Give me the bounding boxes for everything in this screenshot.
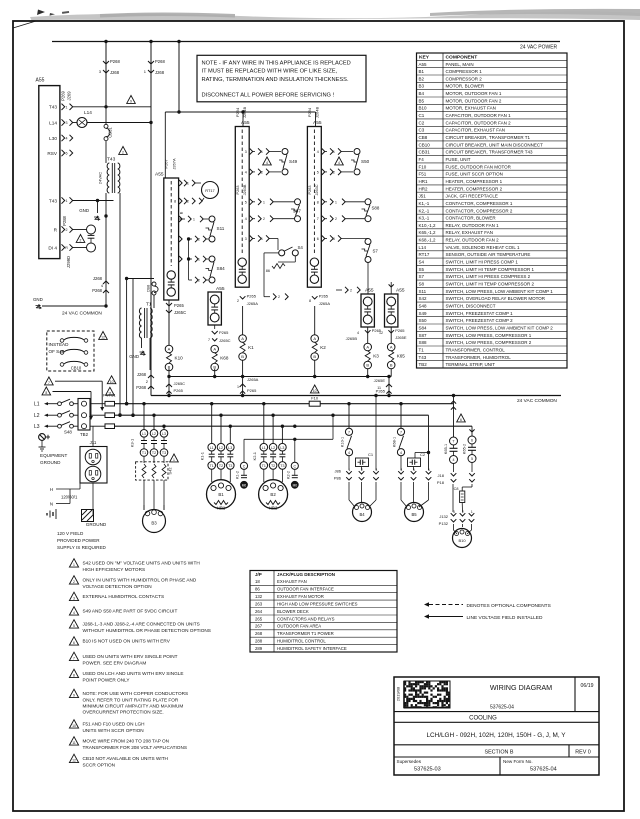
svg-text:GROUND: GROUND (86, 522, 107, 527)
relay contacts K65-1 (453, 396, 455, 438)
svg-text:L1: L1 (34, 402, 40, 408)
svg-text:MOVE WIRE FROM 240 TO 208 TAP: MOVE WIRE FROM 240 TO 208 TAP ON (83, 739, 170, 744)
svg-text:A: A (313, 336, 316, 341)
svg-text:2: 2 (122, 151, 124, 155)
svg-text:N: N (50, 502, 53, 507)
svg-text:TRANSFORMER, CONTROL: TRANSFORMER, CONTROL (446, 347, 506, 352)
svg-text:S88: S88 (419, 340, 428, 345)
svg-text:8: 8 (317, 200, 319, 204)
svg-text:K68-1: K68-1 (393, 437, 397, 447)
svg-text:J265A: J265A (247, 301, 259, 306)
contactor coil K3 (367, 327, 369, 343)
svg-text:4: 4 (357, 331, 359, 335)
svg-text:3: 3 (73, 597, 75, 601)
svg-text:S49: S49 (419, 311, 428, 316)
svg-text:24 VAC COMMON: 24 VAC COMMON (62, 311, 102, 317)
svg-text:POWER. SEE ERV DIAGRAM: POWER. SEE ERV DIAGRAM (83, 660, 147, 665)
switch S84 low ambient 2 (195, 256, 198, 262)
svg-text:RSV: RSV (47, 151, 58, 156)
panel A55 main box (39, 86, 60, 259)
svg-text:CIRCUIT BREAKER, TRANSFORMER T: CIRCUIT BREAKER, TRANSFORMER T1 (446, 135, 531, 140)
svg-text:HR2: HR2 (269, 506, 278, 511)
svg-text:6: 6 (73, 641, 75, 645)
svg-text:4: 4 (245, 170, 247, 174)
svg-text:RELAY, OUTDOOR FAN 2: RELAY, OUTDOOR FAN 2 (446, 238, 500, 243)
svg-text:S88: S88 (372, 206, 380, 211)
svg-text:P267: P267 (163, 159, 168, 169)
switch S49 freezestat (258, 148, 261, 154)
node 24vac common stub (104, 304, 107, 307)
svg-text:K2: K2 (320, 345, 326, 350)
panel A55 K65 interface box (385, 294, 398, 327)
svg-text:A55: A55 (419, 62, 428, 67)
svg-text:J265C: J265C (219, 338, 231, 343)
wire L2 end drop to J86 pin 6 (428, 415, 430, 470)
svg-text:L3: L3 (162, 432, 166, 436)
warning triangle 10 at fuses (107, 376, 116, 384)
svg-text:MINIMUM CIRCUIT AMPACITY AND M: MINIMUM CIRCUIT AMPACITY AND MAXIMUM (83, 703, 184, 708)
svg-text:T2: T2 (152, 451, 156, 455)
svg-text:B2: B2 (270, 492, 276, 497)
svg-text:K65: K65 (397, 354, 406, 359)
svg-text:5: 5 (413, 468, 415, 472)
svg-text:L1: L1 (262, 446, 266, 450)
svg-text:S48: S48 (64, 430, 72, 435)
svg-text:L14: L14 (419, 245, 427, 250)
svg-text:K65-1: K65-1 (444, 444, 448, 454)
warning triangle 4 right (335, 157, 344, 165)
date cell 06/19 (574, 677, 576, 712)
heater HR1 (214, 501, 228, 505)
switch CB10 instead-of-S48 box (47, 331, 94, 371)
svg-text:EXHAUST FAN MOTOR: EXHAUST FAN MOTOR (277, 594, 324, 599)
svg-text:F51 AND F10 USED ON LGH: F51 AND F10 USED ON LGH (83, 722, 145, 727)
svg-text:86: 86 (255, 587, 260, 592)
svg-text:7: 7 (73, 657, 75, 661)
switch S48 pole L1 (58, 402, 62, 406)
svg-text:MOTOR, OUTDOOR FAN 1: MOTOR, OUTDOOR FAN 1 (446, 91, 502, 96)
svg-text:J268: J268 (110, 70, 120, 75)
relay contacts K10-1 (348, 404, 350, 428)
wire bus2 drop to strip2 (315, 112, 317, 127)
motor B10 exhaust fan (453, 524, 455, 530)
note triangle 1 (69, 559, 78, 567)
svg-text:B: B (390, 363, 393, 368)
svg-text:T1: T1 (146, 302, 152, 308)
svg-text:P86: P86 (334, 476, 342, 481)
switch S7 hi press (330, 235, 333, 241)
relay coil K68 (214, 325, 216, 329)
overload S42 (136, 462, 168, 480)
svg-text:K68,-1,2: K68,-1,2 (419, 238, 437, 243)
warning triangle 9 (127, 96, 136, 104)
cooling row (394, 711, 599, 713)
switch S88 low press (330, 199, 333, 205)
svg-text:L3: L3 (280, 446, 284, 450)
ground hatched pad (82, 510, 94, 522)
panel A55 K3 interface box (361, 294, 374, 327)
svg-text:B2: B2 (419, 76, 425, 81)
svg-text:L14: L14 (49, 120, 57, 125)
svg-text:10: 10 (313, 389, 317, 393)
svg-text:2: 2 (462, 510, 464, 514)
svg-text:CB10: CB10 (419, 142, 431, 147)
svg-text:J265B: J265B (346, 336, 358, 341)
svg-text:UNITS WITH SCCR OPTION: UNITS WITH SCCR OPTION (83, 728, 144, 733)
svg-text:J264B: J264B (314, 106, 319, 118)
svg-text:12: 12 (379, 331, 383, 335)
switch S50 freezestat (330, 148, 333, 154)
svg-text:A55: A55 (365, 288, 374, 294)
node bus1-drop2 (149, 40, 152, 43)
wire drop3 to bus2 (178, 42, 180, 113)
svg-text:537625-04: 537625-04 (530, 767, 557, 773)
svg-text:P268: P268 (92, 288, 102, 293)
note triangle 11 (69, 737, 78, 745)
svg-text:CB31: CB31 (419, 150, 431, 155)
svg-text:MOTOR, EXHAUST FAN: MOTOR, EXHAUST FAN (446, 106, 496, 111)
svg-text:HEATER, COMPRESSOR 2: HEATER, COMPRESSOR 2 (446, 186, 503, 191)
svg-text:SWITCH, FREEZESTAT COMP 1: SWITCH, FREEZESTAT COMP 1 (446, 311, 514, 316)
svg-text:DISCONNECT ALL POWER BEFORE SE: DISCONNECT ALL POWER BEFORE SERVICING ! (202, 92, 335, 98)
wire T1 primary feeds (132, 279, 134, 416)
svg-text:A55: A55 (155, 172, 164, 178)
svg-text:SWITCH, LIMIT HI PRESS COMPRES: SWITCH, LIMIT HI PRESS COMPRESS 2 (446, 274, 531, 279)
svg-text:1: 1 (471, 510, 473, 514)
svg-text:C8: C8 (454, 487, 459, 491)
svg-text:5: 5 (317, 170, 319, 174)
svg-text:2: 2 (80, 239, 82, 243)
svg-text:P268: P268 (110, 59, 120, 64)
connector strip A55 P267/J267A (164, 178, 179, 300)
ground at T43 (97, 201, 99, 214)
svg-text:A55: A55 (216, 286, 225, 292)
svg-text:SWITCH, LOW PRESS, COMPRESSOR: SWITCH, LOW PRESS, COMPRESSOR 2 (446, 340, 532, 345)
svg-text:S50: S50 (419, 318, 428, 323)
circuit breaker CB31 (105, 107, 107, 125)
svg-text:B4: B4 (359, 512, 365, 517)
svg-text:B: B (366, 363, 369, 368)
svg-text:J265A: J265A (247, 377, 259, 382)
svg-text:7: 7 (348, 430, 350, 434)
svg-text:8: 8 (309, 299, 311, 303)
svg-text:4: 4 (453, 458, 455, 462)
svg-text:TB2: TB2 (80, 432, 89, 437)
svg-text:6: 6 (333, 237, 335, 241)
wire bus2 drop to strip1 (242, 112, 244, 127)
wire K10 K68 return (168, 369, 170, 377)
aux K2-2 crankcase (294, 439, 296, 462)
title block frame (394, 677, 599, 775)
svg-text:EXHAUST FAN: EXHAUST FAN (277, 579, 307, 584)
wire drop to T43 feed (105, 42, 107, 108)
svg-text:86: 86 (266, 269, 270, 273)
svg-text:P268: P268 (155, 59, 165, 64)
wire B4 feeds (375, 396, 377, 471)
svg-text:J51: J51 (419, 194, 427, 199)
svg-text:J269: J269 (67, 91, 72, 101)
svg-text:C1: C1 (368, 452, 374, 457)
switch S4 hi press (258, 235, 261, 241)
svg-text:2: 2 (73, 580, 75, 584)
svg-text:K10: K10 (175, 356, 184, 361)
svg-text:J132: J132 (439, 514, 448, 519)
svg-text:T3: T3 (162, 451, 166, 455)
svg-text:S48: S48 (419, 304, 428, 309)
note triangle 10 (69, 720, 78, 728)
svg-text:B10: B10 (458, 538, 466, 543)
svg-text:B: B (180, 211, 184, 214)
svg-text:COOLING: COOLING (469, 715, 497, 721)
svg-text:K68: K68 (220, 356, 229, 361)
svg-text:PROVIDED POWER: PROVIDED POWER (57, 538, 100, 543)
svg-text:L30: L30 (49, 136, 57, 141)
svg-text:10: 10 (110, 380, 114, 384)
svg-text:289: 289 (255, 646, 263, 651)
svg-text:DI 4: DI 4 (48, 245, 57, 250)
svg-text:CB31: CB31 (108, 127, 113, 138)
warning triangle 11 at fuses (106, 387, 115, 395)
svg-text:HUMIDITROL SAFETY INTERFACE: HUMIDITROL SAFETY INTERFACE (277, 646, 347, 651)
svg-text:P263: P263 (236, 186, 240, 195)
svg-text:H: H (50, 487, 53, 492)
svg-text:12: 12 (101, 336, 105, 340)
svg-text:2019/08: 2019/08 (396, 686, 401, 701)
sensor RT17 outside air (184, 180, 187, 186)
warning triangle 6 exhaust (457, 414, 466, 422)
svg-text:2: 2 (261, 170, 263, 174)
svg-text:HIGH EFFICIENCY MOTORS: HIGH EFFICIENCY MOTORS (83, 567, 146, 572)
svg-text:B1: B1 (419, 69, 425, 74)
svg-text:537625-03: 537625-03 (414, 767, 441, 773)
svg-text:J265C: J265C (174, 381, 186, 386)
svg-text:S4: S4 (419, 260, 425, 265)
svg-text:A: A (390, 345, 393, 350)
svg-text:2: 2 (237, 299, 239, 303)
svg-text:T2: T2 (271, 464, 275, 468)
note triangle 7 (69, 652, 78, 660)
svg-text:TRANSFORMER, HUMIDITROL: TRANSFORMER, HUMIDITROL (446, 355, 512, 360)
svg-text:18: 18 (255, 579, 260, 584)
warning triangle 7 with wire (45, 377, 54, 385)
svg-text:4: 4 (348, 451, 350, 455)
transformer T43 (107, 163, 109, 193)
svg-text:CAPACITOR, EXHAUST FAN: CAPACITOR, EXHAUST FAN (446, 128, 506, 133)
svg-text:6: 6 (460, 418, 462, 422)
note triangle 5 (69, 620, 78, 628)
svg-text:264: 264 (255, 609, 263, 614)
svg-text:CONTACTOR, BLOWER: CONTACTOR, BLOWER (446, 216, 497, 221)
svg-text:10: 10 (72, 724, 76, 728)
svg-text:LCH/LGH - 092H, 102H, 120H, 15: LCH/LGH - 092H, 102H, 120H, 150H - G, J,… (426, 732, 566, 739)
legend line voltage field installed (424, 614, 429, 618)
svg-text:T1: T1 (419, 347, 425, 352)
svg-text:VALVE, SOLENOID REHEAT COIL 1: VALVE, SOLENOID REHEAT COIL 1 (446, 245, 521, 250)
capacitor C2 (408, 458, 421, 467)
motor B4 outdoor fan 1 (353, 503, 372, 522)
svg-text:KEY: KEY (419, 55, 430, 61)
svg-text:4: 4 (66, 137, 68, 141)
svg-text:S84: S84 (419, 326, 428, 331)
svg-text:1: 1 (237, 385, 239, 389)
svg-text:USED ON LCH AND UNITS WITH ERV: USED ON LCH AND UNITS WITH ERV SINGLE (83, 671, 184, 676)
svg-text:J299D: J299D (66, 256, 71, 268)
wire T43 secondary left (105, 193, 107, 306)
svg-text:B3: B3 (419, 84, 425, 89)
switch S48 pole L3 (58, 424, 62, 428)
svg-text:J18: J18 (438, 473, 445, 478)
svg-text:POINT POWER ONLY: POINT POWER ONLY (83, 677, 131, 682)
svg-text:2: 2 (66, 228, 68, 232)
connector P268 pin 1 (148, 61, 154, 64)
svg-text:2: 2 (198, 279, 200, 283)
svg-text:New Form No.: New Form No. (503, 759, 533, 764)
svg-text:S11: S11 (217, 226, 225, 231)
svg-text:2: 2 (263, 217, 265, 221)
svg-text:3: 3 (245, 150, 247, 154)
svg-text:B3: B3 (151, 521, 157, 526)
svg-text:B4: B4 (419, 91, 425, 96)
svg-text:P269: P269 (61, 90, 66, 100)
svg-text:120 V FIELD: 120 V FIELD (57, 531, 84, 536)
svg-text:SWITCH, LIMIT HI PRESS COMP 1: SWITCH, LIMIT HI PRESS COMP 1 (446, 260, 519, 265)
motor B3 blower (143, 480, 145, 510)
svg-text:S42: S42 (419, 296, 428, 301)
svg-text:R: R (65, 246, 68, 250)
svg-text:4: 4 (400, 468, 402, 472)
svg-text:1: 1 (333, 150, 335, 154)
svg-text:RELAY, OUTDOOR FAN 1: RELAY, OUTDOOR FAN 1 (446, 223, 500, 228)
svg-text:P268: P268 (136, 385, 146, 390)
svg-text:OF S48: OF S48 (49, 349, 65, 354)
svg-text:PANEL, MAIN: PANEL, MAIN (446, 62, 474, 67)
motor B5 outdoor fan 2 (405, 503, 424, 522)
svg-text:263: 263 (255, 601, 263, 606)
svg-text:BLOWER DECK: BLOWER DECK (277, 609, 309, 614)
svg-text:4: 4 (266, 161, 268, 165)
svg-text:1: 1 (66, 105, 68, 109)
svg-text:A55: A55 (241, 120, 250, 126)
terminal strip TB2 (78, 399, 90, 431)
wire bus2 left drop to P267 strip (164, 112, 166, 178)
svg-text:M6: M6 (293, 483, 298, 487)
svg-text:P263: P263 (308, 186, 312, 195)
svg-text:B5: B5 (411, 512, 417, 517)
fuse F10 (310, 385, 319, 393)
svg-text:2: 2 (350, 289, 352, 293)
svg-text:S4: S4 (298, 245, 304, 250)
svg-text:11: 11 (108, 391, 112, 395)
warning triangle 12 (99, 332, 108, 340)
motor B1 compressor 1 (211, 469, 213, 482)
wire T43 row (73, 106, 151, 108)
svg-text:C: C (293, 464, 296, 468)
svg-text:GND: GND (129, 354, 139, 359)
svg-text:TB2: TB2 (419, 362, 428, 367)
svg-text:SCCR OPTION: SCCR OPTION (83, 762, 116, 767)
node bus1-drop1 (104, 40, 107, 43)
note triangle 4 (69, 607, 78, 615)
wire 24 VAC power bus (52, 41, 560, 43)
svg-text:CONTACTOR, COMPRESSOR 2: CONTACTOR, COMPRESSOR 2 (446, 208, 513, 213)
svg-text:J265C: J265C (174, 310, 186, 315)
wire common stub (42, 305, 106, 307)
svg-text:4: 4 (400, 451, 402, 455)
svg-text:J263B: J263B (243, 184, 247, 195)
svg-text:S50: S50 (361, 159, 370, 164)
relay coil K10 (165, 345, 173, 353)
svg-text:HR1: HR1 (419, 179, 428, 184)
svg-text:268: 268 (255, 631, 263, 636)
svg-text:288: 288 (255, 639, 263, 644)
contactor coil K1 (242, 306, 244, 335)
motor B2 compressor 2 (263, 469, 265, 482)
svg-text:1: 1 (187, 182, 189, 186)
connector pin 2 arrows mid-left (264, 296, 270, 298)
svg-text:SWITCH, LIMIT HI TEMP COMPRESS: SWITCH, LIMIT HI TEMP COMPRESSOR 2 (446, 282, 535, 287)
svg-text:INSTEAD: INSTEAD (49, 342, 70, 347)
connector J86 pins 4 5 6 (398, 471, 404, 474)
svg-text:L1: L1 (210, 446, 214, 450)
connector J265C to common (168, 377, 170, 396)
svg-text:K3-1: K3-1 (130, 438, 135, 447)
svg-text:L3: L3 (34, 424, 40, 430)
svg-text:P265: P265 (395, 328, 405, 333)
svg-text:06/19: 06/19 (581, 683, 594, 689)
svg-text:S42: S42 (168, 467, 173, 475)
svg-text:K3,-1: K3,-1 (419, 216, 430, 221)
svg-text:L2: L2 (219, 446, 223, 450)
svg-text:TERMINAL STRIP, UNIT: TERMINAL STRIP, UNIT (446, 362, 496, 367)
switch S87 low press (258, 199, 261, 205)
svg-text:132: 132 (255, 594, 263, 599)
svg-text:T3: T3 (228, 464, 232, 468)
warning triangle 1 at S42 (170, 454, 179, 462)
wire coil return bus (169, 376, 391, 378)
svg-text:3: 3 (245, 237, 247, 241)
svg-text:8: 8 (73, 674, 75, 678)
svg-text:P265: P265 (319, 294, 329, 299)
svg-text:T43: T43 (49, 198, 57, 203)
svg-text:LINE VOLTAGE FIELD INSTALLED: LINE VOLTAGE FIELD INSTALLED (467, 615, 544, 621)
svg-text:P265: P265 (174, 303, 184, 308)
svg-text:S87: S87 (293, 209, 301, 214)
wire aux feed (244, 438, 333, 440)
svg-text:4: 4 (73, 611, 75, 615)
svg-text:24 VAC COMMON: 24 VAC COMMON (517, 398, 557, 404)
relay coil K65 (390, 327, 392, 343)
svg-text:8: 8 (45, 391, 47, 395)
svg-text:L3: L3 (228, 446, 232, 450)
svg-text:2: 2 (333, 170, 335, 174)
svg-text:J268: J268 (137, 372, 147, 377)
svg-text:1: 1 (173, 458, 175, 462)
svg-text:P288: P288 (62, 215, 67, 225)
svg-text:537625-04: 537625-04 (490, 705, 514, 711)
svg-text:HR1: HR1 (217, 506, 226, 511)
svg-text:7: 7 (48, 381, 50, 385)
svg-text:K3: K3 (373, 354, 379, 359)
svg-text:T3: T3 (280, 464, 284, 468)
svg-text:TRANSFORMER FOR 208 VOLT APPLI: TRANSFORMER FOR 208 VOLT APPLICATIONS (83, 745, 187, 750)
svg-text:L14: L14 (84, 110, 92, 115)
svg-text:K10-1: K10-1 (341, 437, 345, 447)
svg-text:ONLY. REFER TO UNIT RATING PL: ONLY. REFER TO UNIT RATING PLATE FOR (83, 697, 179, 702)
valve L14 solenoid (77, 118, 87, 128)
svg-text:5: 5 (471, 457, 473, 461)
svg-text:24 VAC POWER: 24 VAC POWER (520, 45, 558, 51)
note triangle 8 (69, 669, 78, 677)
